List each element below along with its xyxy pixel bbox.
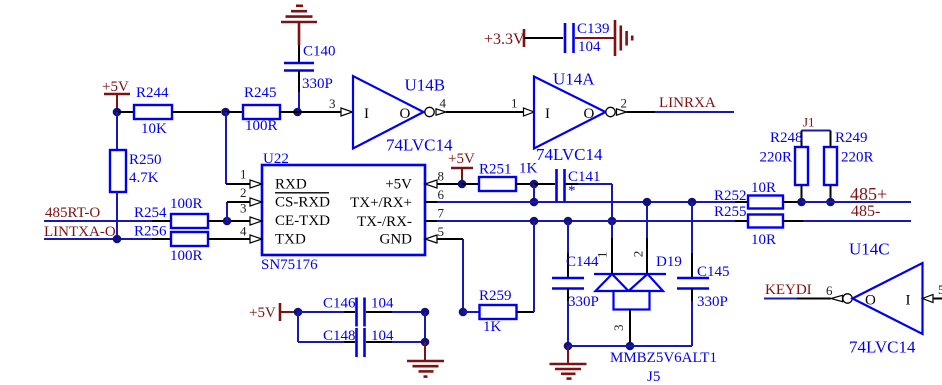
node +5V/C146 junction <box>294 308 303 317</box>
svg-text:10R: 10R <box>751 180 776 196</box>
svg-text:1: 1 <box>511 96 518 111</box>
svg-text:1: 1 <box>240 167 247 182</box>
node R251/C141 junction <box>530 180 539 189</box>
node R249/485+ junction <box>826 198 835 207</box>
resistor R245 <box>226 85 298 134</box>
svg-text:I: I <box>545 106 550 122</box>
svg-text:6: 6 <box>438 187 445 202</box>
svg-text:R248: R248 <box>770 130 803 146</box>
svg-text:C146: C146 <box>323 296 356 312</box>
capacitor C146 <box>298 296 425 327</box>
op-amp U14B inverter 74LVC14 <box>341 76 453 155</box>
svg-text:330P: 330P <box>568 294 599 310</box>
svg-text:485RT-O: 485RT-O <box>45 205 100 221</box>
node pin8/+5V junction <box>458 180 467 189</box>
resistor R244 <box>117 85 221 137</box>
resistor R255 <box>714 204 803 248</box>
op-amp U14C inverter 74LVC14 <box>831 240 923 357</box>
capacitor C141 <box>534 169 601 201</box>
svg-text:+5V: +5V <box>448 151 475 167</box>
svg-text:4: 4 <box>240 224 247 239</box>
wire C141 to D19 pin 1 <box>566 184 613 221</box>
IC U22 SN75176 <box>261 151 425 273</box>
node on TX+ row <box>530 198 539 207</box>
node TX- row R259 riser <box>530 217 539 226</box>
svg-text:3: 3 <box>240 201 247 216</box>
wire C145 riser <box>691 202 693 277</box>
node C146/C148 junction <box>421 308 430 317</box>
svg-text:330P: 330P <box>302 76 333 92</box>
svg-text:10R: 10R <box>751 232 776 248</box>
node R254/pin2 junction <box>223 217 232 226</box>
svg-text:C148: C148 <box>323 328 356 344</box>
wire R251 junction down to TX+ row <box>533 184 535 202</box>
svg-text:GND: GND <box>380 232 413 248</box>
svg-text:2: 2 <box>240 185 247 200</box>
power +5V (at pin 8) <box>448 151 475 182</box>
wire GND pin down to C146 row <box>462 239 464 312</box>
node TX- row C144 junction <box>564 217 573 226</box>
pin 5 of U14C <box>923 282 942 303</box>
svg-text:74LVC14: 74LVC14 <box>536 145 603 164</box>
wire <box>298 71 300 113</box>
wire <box>298 45 300 62</box>
node R250/LINTXA-O junction <box>113 235 122 244</box>
wire net 485+ <box>802 184 912 204</box>
svg-text:+3.3V: +3.3V <box>484 31 525 48</box>
svg-text:220R: 220R <box>841 150 874 166</box>
wire TX+ row <box>437 201 735 203</box>
svg-text:7: 7 <box>438 206 445 221</box>
connector J1 bracket <box>802 115 831 148</box>
svg-text:5: 5 <box>438 224 445 239</box>
svg-text:4.7K: 4.7K <box>129 170 159 186</box>
svg-text:U14C: U14C <box>849 240 890 259</box>
svg-text:C145: C145 <box>697 264 730 280</box>
svg-text:74LVC14: 74LVC14 <box>386 136 453 155</box>
node pin5 riser junction <box>459 308 468 317</box>
resistor R248 <box>760 130 809 202</box>
svg-text:6: 6 <box>826 283 833 298</box>
svg-text:R254: R254 <box>134 205 167 221</box>
node R244/R245 junction <box>221 108 230 117</box>
svg-text:O: O <box>584 106 595 122</box>
svg-text:TX+/RX+: TX+/RX+ <box>350 195 412 211</box>
resistor R249 <box>824 130 874 202</box>
svg-text:+5V: +5V <box>385 177 412 193</box>
svg-text:2: 2 <box>621 96 628 111</box>
svg-text:LINRXA: LINRXA <box>659 95 716 111</box>
svg-text:R252: R252 <box>714 188 747 204</box>
svg-text:TX-/RX-: TX-/RX- <box>357 214 412 230</box>
svg-text:74LVC14: 74LVC14 <box>849 338 916 357</box>
wire C148 right up to C146 row <box>424 312 426 342</box>
svg-text:4: 4 <box>440 96 447 111</box>
wire to pin 1 <box>226 183 251 185</box>
svg-text:SN75176: SN75176 <box>261 257 318 273</box>
svg-text:100R: 100R <box>170 248 203 264</box>
svg-text:104: 104 <box>578 39 601 55</box>
pin 3 <box>240 201 262 226</box>
svg-text:J5: J5 <box>647 369 660 385</box>
svg-text:I: I <box>364 106 369 122</box>
svg-text:100R: 100R <box>170 196 203 212</box>
node R248/485+ junction <box>797 198 806 207</box>
svg-text:I: I <box>906 293 911 309</box>
capacitor C145 <box>677 264 730 310</box>
svg-text:O: O <box>865 293 876 309</box>
svg-text:R255: R255 <box>714 204 747 220</box>
wire net KEYDI <box>764 282 833 299</box>
svg-text:485-: 485- <box>851 203 880 220</box>
resistor R254 <box>134 196 251 228</box>
wire net 485- <box>803 203 911 221</box>
wire C144 riser <box>567 221 569 277</box>
wire U14B pin4 to U14A pin1 <box>446 96 524 113</box>
node +5V junction <box>113 108 122 117</box>
svg-text:KEYDI: KEYDI <box>765 282 812 298</box>
wire C144 to ground <box>567 289 569 347</box>
svg-text:5: 5 <box>938 282 942 297</box>
ground (right of C139, rotated) <box>615 20 632 56</box>
svg-text:+5V: +5V <box>102 79 129 95</box>
capacitor C144 <box>552 254 599 310</box>
wire R259 riser to TX- row <box>533 221 535 312</box>
wire net LINTXA-O <box>44 224 152 240</box>
node C140/R245 junction <box>293 108 302 117</box>
wire TX- row <box>437 220 735 222</box>
svg-text:2: 2 <box>631 251 646 258</box>
svg-text:330P: 330P <box>697 294 728 310</box>
svg-text:CE-TXD: CE-TXD <box>275 213 330 229</box>
svg-text:O: O <box>400 106 411 122</box>
svg-text:+5V: +5V <box>249 305 276 321</box>
resistor R252 <box>714 180 802 209</box>
ground (below C148) <box>407 342 444 377</box>
wire <box>524 37 563 39</box>
svg-text:J1: J1 <box>803 115 815 130</box>
svg-text:1K: 1K <box>519 161 538 177</box>
svg-text:MMBZ5V6ALT1: MMBZ5V6ALT1 <box>610 350 717 366</box>
node D19 pin1 on TX- row <box>608 217 617 226</box>
svg-text:R251: R251 <box>479 162 512 178</box>
resistor R256 <box>134 224 251 265</box>
capacitor C139 <box>565 21 610 55</box>
wire riser to pin 2 <box>227 202 251 221</box>
svg-text:R245: R245 <box>244 85 277 101</box>
svg-text:U14A: U14A <box>553 70 595 89</box>
svg-text:*: * <box>568 183 576 199</box>
node C148/ground junction <box>421 338 430 347</box>
svg-text:104: 104 <box>371 296 394 312</box>
svg-text:3: 3 <box>329 96 336 111</box>
svg-text:R250: R250 <box>129 152 162 168</box>
svg-text:TXD: TXD <box>275 232 306 248</box>
pin 1 <box>240 167 262 189</box>
resistor R250 <box>110 112 162 239</box>
svg-text:485+: 485+ <box>850 184 887 204</box>
svg-text:D19: D19 <box>656 254 682 270</box>
power +5V (top left) <box>102 79 130 110</box>
svg-text:8: 8 <box>438 169 445 184</box>
wire net 485RT-O <box>44 205 152 221</box>
wire C145 to ground <box>568 289 692 347</box>
svg-text:C139: C139 <box>577 21 610 37</box>
pin 6 <box>425 187 445 202</box>
pin 8 <box>425 169 462 189</box>
ground (below C144) <box>550 346 587 379</box>
svg-text:R249: R249 <box>835 130 868 146</box>
node ground junction <box>564 342 573 351</box>
svg-text:220R: 220R <box>760 150 793 166</box>
svg-text:RXD: RXD <box>275 177 307 193</box>
svg-text:R244: R244 <box>136 85 169 101</box>
wire to U14B pin 3 <box>298 96 342 112</box>
svg-text:C140: C140 <box>303 44 336 60</box>
svg-text:R256: R256 <box>134 224 167 240</box>
svg-text:1K: 1K <box>483 319 502 335</box>
svg-text:U22: U22 <box>263 151 289 167</box>
op-amp U14A inverter 74LVC14 <box>524 70 628 165</box>
svg-text:R259: R259 <box>479 288 512 304</box>
ground top (above C140) <box>281 6 317 45</box>
diode D19 MMBZ5V6ALT1 <box>594 202 717 385</box>
capacitor C140 <box>284 44 336 93</box>
wire <box>575 37 614 39</box>
svg-text:U14B: U14B <box>405 76 446 95</box>
wire R244 junction down to U22 pin 1 <box>225 112 227 184</box>
node TX+ row C145 junction <box>688 198 697 207</box>
resistor R251 <box>462 161 538 192</box>
power +5V (bottom left) <box>249 303 296 321</box>
svg-text:CS-RXD: CS-RXD <box>275 195 330 211</box>
svg-text:1: 1 <box>595 251 610 258</box>
svg-text:LINTXA-O: LINTXA-O <box>44 224 116 240</box>
power +3.3V <box>484 29 525 48</box>
resistor R259 <box>463 288 534 335</box>
svg-text:100R: 100R <box>245 118 278 134</box>
pin 2 <box>240 185 262 206</box>
pin 5 <box>425 224 463 243</box>
svg-text:10K: 10K <box>141 121 167 137</box>
node TX+ row D19 pin2 junction <box>643 198 652 207</box>
capacitor C148 <box>298 328 425 357</box>
svg-text:3: 3 <box>611 325 626 332</box>
pin 4 <box>240 224 262 244</box>
svg-text:104: 104 <box>371 328 394 344</box>
wire +5V down to C148 row <box>297 312 299 342</box>
wire net LINRXA <box>627 95 735 112</box>
pin 7 <box>425 206 445 222</box>
